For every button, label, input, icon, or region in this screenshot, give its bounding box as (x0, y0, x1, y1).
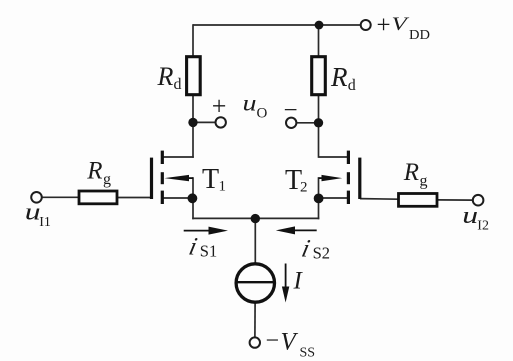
svg-text:1: 1 (219, 179, 227, 195)
terminal output + (216, 117, 226, 127)
svg-text:−: − (284, 97, 298, 124)
node right drain/output junction (314, 118, 323, 127)
resistor Rd right (312, 57, 326, 95)
wire right input (437, 199, 472, 201)
wire bottom source rail (192, 217, 319, 219)
node T1 source junction (188, 193, 198, 203)
wire right drain branch upper (318, 25, 320, 57)
svg-text:g: g (103, 171, 111, 188)
resistor Rd left (187, 57, 201, 95)
svg-text:−: − (266, 328, 280, 354)
arrow iS2 (290, 229, 317, 231)
node tail junction (251, 214, 260, 223)
transistor T2 (348, 151, 359, 204)
svg-text:DD: DD (409, 28, 430, 43)
wire current source to VSS terminal (254, 302, 256, 337)
svg-text:d: d (174, 76, 182, 93)
wire top rail (193, 24, 360, 26)
svg-text:u: u (243, 90, 257, 116)
svg-text:d: d (348, 77, 356, 94)
svg-text:g: g (420, 172, 428, 189)
wire T1 source horizontal (162, 197, 193, 199)
svg-text:u: u (462, 203, 478, 229)
resistor Rg left (79, 191, 117, 204)
svg-text:S2: S2 (313, 243, 330, 262)
svg-text:R: R (403, 159, 419, 186)
wire T1 drain horizontal (162, 156, 194, 158)
svg-text:I2: I2 (477, 219, 489, 234)
svg-text:R: R (86, 157, 102, 184)
svg-text:2: 2 (300, 180, 308, 196)
arrow iS1 (184, 230, 212, 232)
wire T1 gate lead (117, 197, 152, 199)
current source I (236, 264, 274, 302)
resistor Rg right (399, 194, 438, 207)
node left drain/output junction (188, 118, 197, 127)
wire left output stub (193, 121, 216, 123)
terminal uI1 (31, 192, 42, 203)
wire left drain branch lower (192, 95, 194, 158)
svg-text:SS: SS (300, 345, 316, 360)
wire right output stub (297, 122, 319, 124)
node: top rail / right Rd junction (315, 21, 324, 30)
node T2 source junction (314, 194, 324, 204)
svg-text:+: + (212, 92, 227, 121)
svg-text:R: R (157, 62, 174, 91)
terminal -VSS (250, 337, 260, 347)
terminal uI2 (473, 195, 484, 206)
svg-text:I1: I1 (39, 215, 51, 230)
terminal output - (286, 118, 296, 128)
wire T2 source down (318, 198, 320, 219)
wire T2 drain horizontal (319, 156, 350, 158)
wire left drain branch upper (192, 24, 194, 57)
arrow I (285, 264, 287, 291)
svg-text:S1: S1 (200, 242, 217, 261)
transistor T2 body arrow (319, 177, 325, 179)
wire right drain branch lower (318, 95, 320, 158)
svg-text:+: + (377, 12, 391, 39)
svg-text:R: R (330, 62, 348, 92)
wire T1 body vertical (192, 177, 194, 198)
svg-text:O: O (257, 106, 268, 122)
wire T2 body vertical (318, 177, 320, 198)
transistor T1 body arrow (186, 177, 193, 179)
transistor T1 (152, 151, 163, 204)
wire left input (42, 196, 79, 198)
wire tail down to current source (254, 218, 256, 264)
wire T1 source down (192, 198, 194, 219)
wire T2 gate lead (360, 198, 399, 201)
terminal +VDD (361, 20, 371, 30)
wire T2 source horizontal (319, 197, 350, 199)
svg-text:T: T (202, 164, 219, 195)
